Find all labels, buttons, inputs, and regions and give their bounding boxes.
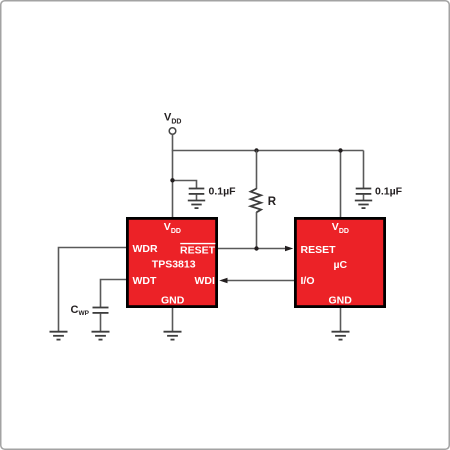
junction dot at C1 tap: [170, 178, 174, 182]
wire WDI net uC I/O to TPS3813: [227, 280, 294, 282]
junction dot at uC VDD: [338, 148, 342, 152]
svg-text:GND: GND: [329, 294, 353, 306]
wire left cap tap: [172, 181, 197, 189]
arrowhead into TPS3813 WDI: [219, 278, 227, 284]
wire top VDD bus: [172, 150, 364, 152]
ground at uC GND: [332, 332, 350, 340]
ground under C1: [188, 201, 205, 209]
svg-text:R: R: [268, 196, 277, 208]
wire uC GND to ground: [340, 308, 342, 332]
ground under CWP: [92, 332, 110, 340]
svg-text:0.1µF: 0.1µF: [209, 186, 237, 198]
capacitor C2 0.1uF (right): [356, 189, 372, 201]
pin RESET label with overline (U1): [180, 244, 216, 257]
svg-text:GND: GND: [161, 294, 185, 306]
wire right cap branch down: [363, 151, 365, 189]
wire VDD terminal to TPS3813 VDD pin: [172, 134, 174, 217]
svg-text:RESET: RESET: [180, 244, 216, 256]
svg-text:µC: µC: [334, 259, 348, 271]
wire uC VDD drop: [340, 150, 342, 217]
IC U2 microcontroller body: [295, 218, 384, 306]
IC U1 TPS3813 body: [127, 218, 216, 306]
wire TPS3813 GND to ground: [172, 308, 174, 332]
wire WDR to ground: [59, 248, 127, 332]
arrowhead into uC RESET: [285, 246, 293, 252]
junction dot at R top: [254, 148, 258, 152]
svg-text:RESET: RESET: [301, 244, 337, 256]
ground at WDR: [50, 332, 68, 340]
svg-text:I/O: I/O: [301, 275, 315, 287]
node VDD terminal: [169, 128, 176, 135]
svg-text:WDI: WDI: [195, 275, 215, 287]
wire WDT to CWP: [101, 280, 127, 308]
svg-text:0.1µF: 0.1µF: [375, 186, 403, 198]
svg-text:TPS3813: TPS3813: [152, 258, 196, 270]
ground at TPS3813 GND: [164, 332, 182, 340]
wire RESET net TPS3813 to uC: [218, 248, 286, 250]
capacitor C1 0.1uF (left): [189, 189, 205, 201]
resistor R: [251, 151, 262, 249]
svg-text:WDT: WDT: [133, 275, 157, 287]
capacitor CWP: [93, 308, 109, 332]
ground under C2: [355, 201, 372, 209]
junction dot RESET/R: [254, 246, 258, 250]
svg-text:WDR: WDR: [133, 243, 158, 255]
